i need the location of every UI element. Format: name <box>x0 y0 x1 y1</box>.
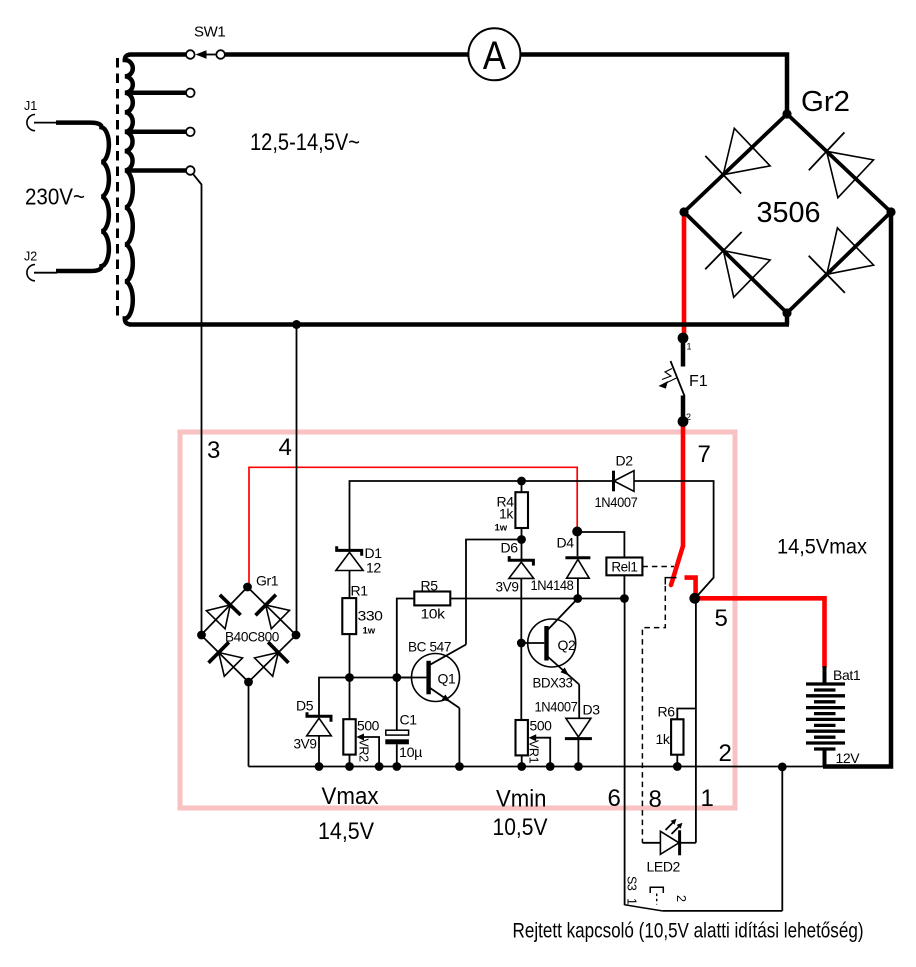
breaker F1 trip symbol <box>662 369 672 380</box>
trimmer VR2 <box>349 678 351 720</box>
wire red contact elbow to node <box>685 578 696 596</box>
resistor R6 <box>695 599 697 843</box>
LED LED2 <box>642 842 660 844</box>
switch SW1 arrow <box>202 54 218 56</box>
Gr2 diode bottom-right <box>827 228 874 274</box>
transistor Q2 <box>528 619 576 667</box>
svg-text:1N4007: 1N4007 <box>595 494 639 510</box>
svg-text:3506: 3506 <box>757 197 821 229</box>
Gr1 diode bottom-right <box>255 653 279 677</box>
node R4 bottom dot <box>517 535 526 544</box>
wire right bus from Gr2 to battery bottom <box>823 214 891 767</box>
wire node 4 down to Gr1 <box>296 325 298 635</box>
svg-text:1N4007: 1N4007 <box>535 699 579 715</box>
wire top bus to ammeter <box>225 52 469 57</box>
svg-text:1: 1 <box>687 342 692 352</box>
Gr1 diode top-left <box>206 605 230 629</box>
connector J1 <box>27 115 35 131</box>
wire relay to S3 <box>624 599 626 906</box>
node relay bottom dot <box>620 594 629 603</box>
wire D5 to rail <box>318 736 320 767</box>
zener D1 triangle <box>336 552 363 570</box>
svg-text:500: 500 <box>357 718 380 734</box>
svg-text:12V: 12V <box>836 750 861 766</box>
battery Bat1 plates <box>806 684 845 749</box>
svg-text:A: A <box>483 34 506 78</box>
svg-text:Rel1: Rel1 <box>611 560 637 575</box>
diode D4 <box>577 532 579 556</box>
svg-text:Vmax: Vmax <box>322 783 379 810</box>
svg-text:B40C800: B40C800 <box>225 629 280 645</box>
svg-text:2: 2 <box>686 412 691 422</box>
resistor R5 <box>414 592 450 606</box>
resistor R4 <box>521 481 523 492</box>
svg-text:J2: J2 <box>24 250 37 264</box>
svg-text:14,5Vmax: 14,5Vmax <box>777 535 867 559</box>
svg-text:S3: S3 <box>625 876 639 891</box>
wire red net Vsense (thin) <box>249 467 577 584</box>
wire red F1 to relay contact <box>681 423 686 547</box>
svg-text:Gr1: Gr1 <box>256 573 279 589</box>
relay contact blade (red) <box>671 547 683 586</box>
svg-text:D3: D3 <box>583 702 601 718</box>
switch SW1 tap circles <box>186 50 195 59</box>
node Q1 base dot <box>392 673 401 682</box>
zener D5 triangle <box>307 718 332 736</box>
svg-text:1w: 1w <box>363 626 376 637</box>
svg-text:R5: R5 <box>421 578 439 594</box>
svg-text:BC 547: BC 547 <box>408 639 452 655</box>
svg-text:LED2: LED2 <box>647 859 681 875</box>
svg-text:1w: 1w <box>495 523 508 534</box>
zener D5 bar <box>307 712 331 722</box>
svg-text:6: 6 <box>608 785 621 812</box>
svg-text:12: 12 <box>366 560 381 576</box>
svg-text:1: 1 <box>701 785 714 812</box>
ammeter PA1 <box>468 28 520 80</box>
wire top bus ammeter to Gr2 <box>520 55 787 112</box>
wire D1 top feed <box>350 481 614 549</box>
svg-text:BDX33: BDX33 <box>533 675 574 691</box>
node Q2 collector dot <box>573 594 582 603</box>
transformer T1 core <box>116 58 119 318</box>
svg-text:1N4148: 1N4148 <box>531 577 575 593</box>
svg-text:500: 500 <box>530 718 553 734</box>
battery Bat1 top stub <box>823 666 827 684</box>
wire red node to battery <box>693 598 825 667</box>
diode D2 <box>612 471 615 492</box>
svg-text:D2: D2 <box>616 453 634 469</box>
capacitor C1 <box>396 678 398 731</box>
svg-text:R1: R1 <box>351 583 369 599</box>
bridge rectifier Gr2 outline <box>684 114 891 313</box>
svg-text:Gr2: Gr2 <box>801 86 850 118</box>
transformer tap lead 4 <box>127 168 186 173</box>
svg-text:D6: D6 <box>501 540 519 556</box>
node D4 top dot <box>572 527 582 537</box>
svg-text:1k: 1k <box>499 506 514 522</box>
svg-text:7: 7 <box>698 441 711 468</box>
wire node 3 from tap to Gr1 <box>193 174 202 634</box>
relay coil Rel1 <box>577 532 624 558</box>
rail junction dots <box>315 762 324 771</box>
wire R5 right long to relay node <box>450 598 624 600</box>
wire D2 branch to relay node <box>635 481 714 598</box>
node R4 top dot <box>517 477 526 486</box>
svg-text:3V9: 3V9 <box>496 579 520 595</box>
svg-text:C1: C1 <box>400 712 418 728</box>
svg-text:10,5V: 10,5V <box>493 814 548 841</box>
control box frame (pink) <box>180 432 735 808</box>
zener D1 bar <box>337 546 362 556</box>
svg-text:SW1: SW1 <box>194 24 225 41</box>
breaker F1 pole 2 stub <box>681 396 686 421</box>
svg-text:3V9: 3V9 <box>294 736 318 752</box>
node relay common dot <box>689 593 700 604</box>
Gr2 diode top-right <box>827 151 874 197</box>
ground rail wire <box>249 766 825 768</box>
svg-text:Q1: Q1 <box>438 671 456 687</box>
zener D6 triangle <box>509 562 534 578</box>
Gr1 diode bottom-left <box>219 653 243 677</box>
transformer T1 secondary winding <box>125 55 186 325</box>
svg-text:Bat1: Bat1 <box>833 667 861 683</box>
svg-text:Q2: Q2 <box>558 637 576 653</box>
svg-text:14,5V: 14,5V <box>318 818 374 845</box>
svg-text:12,5-14,5V~: 12,5-14,5V~ <box>250 129 360 156</box>
svg-text:2: 2 <box>674 895 688 902</box>
wire red from Gr2 left vertex down to F1 <box>682 214 687 335</box>
bridge rectifier Gr1 outline <box>201 587 296 682</box>
svg-text:1: 1 <box>625 898 639 905</box>
transistor Q1 <box>412 654 460 702</box>
wire bottom bus <box>129 322 789 327</box>
svg-text:VR2: VR2 <box>357 739 371 763</box>
svg-text:VR1: VR1 <box>527 740 541 764</box>
svg-text:D4: D4 <box>557 535 575 551</box>
wire R1 to base rail <box>349 634 351 677</box>
Gr1 vertex dots <box>243 583 252 592</box>
wire base rail Vmax <box>319 678 427 716</box>
svg-text:3: 3 <box>207 437 220 464</box>
svg-text:10k: 10k <box>421 606 447 622</box>
resistor R1 <box>342 598 356 634</box>
svg-text:1k: 1k <box>656 731 671 747</box>
svg-text:Vmin: Vmin <box>496 786 547 813</box>
battery Bat1 bottom stub <box>823 749 827 767</box>
svg-text:8: 8 <box>649 786 662 813</box>
Gr2 vertex dots <box>782 109 791 118</box>
Gr2 diode bottom-left <box>723 251 770 298</box>
transformer tap lead 2 <box>127 91 186 96</box>
switch S3 <box>625 905 663 911</box>
svg-text:330: 330 <box>358 608 384 624</box>
Gr2 diode top-left <box>723 128 770 174</box>
wire D1 to R1 <box>349 571 351 599</box>
node junction on bottom bus (wire 4) <box>292 320 301 329</box>
zener D6 bar <box>509 556 533 566</box>
node Q2 base dot <box>517 639 526 648</box>
tap circle 2 <box>186 89 195 98</box>
breaker F1 pole 1 stub <box>681 338 686 367</box>
svg-text:5: 5 <box>715 605 728 632</box>
diode D3 <box>566 718 591 737</box>
svg-text:R6: R6 <box>658 704 676 720</box>
connector J2 <box>27 265 35 281</box>
breaker F1 blade <box>671 361 685 396</box>
transformer tap lead 3 <box>127 130 186 135</box>
relay contact fixed terminal <box>665 578 676 585</box>
tap circle 3 <box>186 128 195 137</box>
transformer T1 primary winding <box>56 123 109 271</box>
wire Gr1 bottom to rail <box>248 682 250 767</box>
relay actuator dashed linkage <box>642 566 674 568</box>
svg-text:4: 4 <box>279 434 292 461</box>
tap circle 4 <box>186 166 195 175</box>
svg-text:F1: F1 <box>689 373 708 390</box>
wire Gr2 bottom vertex stub <box>785 313 790 325</box>
svg-text:J1: J1 <box>24 99 37 113</box>
svg-text:230V~: 230V~ <box>25 184 85 210</box>
node R1 rail dot <box>345 673 354 682</box>
svg-text:Rejtett kapcsoló (10,5V alatti: Rejtett kapcsoló (10,5V alatti idítási l… <box>513 920 864 943</box>
wire Q1 collector riser to R4 node <box>466 540 522 645</box>
wire R5 left to Q1 base node <box>397 599 415 678</box>
trimmer VR1 <box>520 643 522 720</box>
svg-text:D5: D5 <box>296 698 314 714</box>
Gr1 diode top-right <box>266 605 290 629</box>
svg-text:10µ: 10µ <box>399 744 422 760</box>
node 1 dot <box>678 333 689 344</box>
svg-text:2: 2 <box>719 740 732 767</box>
node 2 dot <box>678 416 689 427</box>
